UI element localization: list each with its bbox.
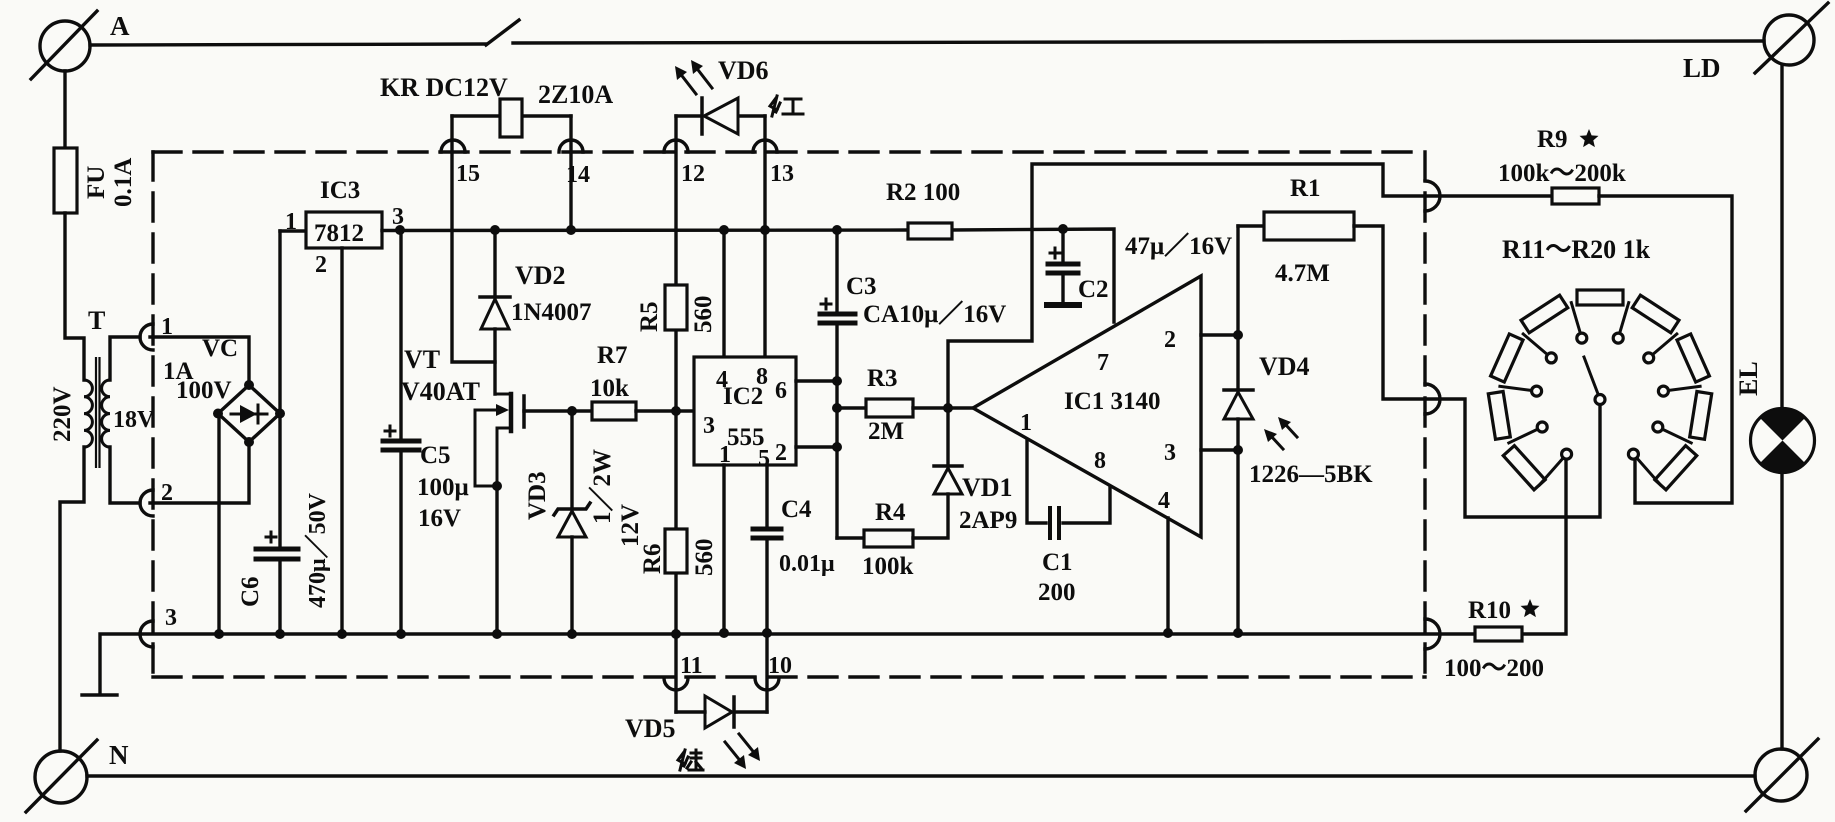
svg-text:3: 3 (703, 413, 715, 439)
node pin1 at rail (719, 628, 729, 638)
svg-text:EL: EL (1734, 361, 1763, 396)
photodiode VD4 1226-5BK (1224, 390, 1253, 419)
resistor R18 (1677, 334, 1709, 382)
svg-text:C1: C1 (1042, 549, 1073, 576)
capacitor C5 100u 16V (383, 426, 419, 450)
svg-text:A: A (110, 11, 130, 41)
svg-text:IC2: IC2 (723, 383, 763, 410)
spoke contact e (1571, 303, 1582, 339)
dashed enclosure bottom (153, 675, 1425, 678)
svg-text:10k: 10k (590, 375, 629, 402)
resistor R14 (1491, 334, 1523, 382)
wire contact 3 to ground symbol (100, 634, 140, 692)
node bridge bottom (244, 437, 254, 447)
wire lamp to bottom terminal (1780, 473, 1783, 749)
node pin3/C5 (395, 225, 405, 235)
svg-text:1／2W: 1／2W (588, 449, 616, 524)
svg-text:VD5: VD5 (625, 714, 676, 743)
svg-text:220V: 220V (49, 386, 76, 442)
resistor R9 100k~200k (1552, 188, 1599, 204)
wire contact 2 to bridge bottom (150, 444, 249, 503)
LED VD6 red loop (676, 114, 765, 117)
transformer T primary winding 220V (84, 380, 92, 447)
wire VD6 right to IC2 pin8 (763, 116, 766, 357)
svg-text:3: 3 (1164, 440, 1176, 466)
wire +12V rail from IC3 pin3 to R2 (382, 228, 908, 232)
svg-text:14: 14 (566, 162, 590, 188)
transformer core (96, 357, 100, 468)
wire VD4 branch (1236, 226, 1239, 632)
svg-text:R9: R9 (1537, 126, 1568, 153)
svg-text:100k: 100k (862, 553, 914, 580)
resistor R2 100 (908, 223, 952, 239)
node bridge right (275, 409, 285, 419)
node bridge left (213, 409, 223, 419)
svg-text:IC1 3140: IC1 3140 (1064, 388, 1161, 415)
LED VD5 symbol (705, 696, 734, 728)
svg-text:R6: R6 (639, 543, 666, 574)
svg-text:VD3: VD3 (524, 471, 551, 520)
contact 15 bump (441, 140, 465, 152)
svg-text:R2 100: R2 100 (886, 179, 960, 206)
wire IC2 pin4 to rail (722, 230, 725, 357)
svg-text:2: 2 (775, 440, 787, 466)
node VD4 at rail (1233, 628, 1243, 638)
contact circle 1 (1562, 449, 1572, 459)
wire primary bottom to N (60, 447, 84, 751)
spoke contact d (1523, 334, 1551, 358)
VD5 emission arrows (725, 734, 760, 769)
svg-text:470μ／50V: 470μ／50V (304, 492, 331, 608)
terminal A (31, 11, 97, 79)
wire feedback from input node to R9 (948, 164, 1552, 408)
svg-text:3: 3 (165, 605, 177, 631)
wire bridge left to ground rail (217, 414, 220, 634)
bridge inner diode (231, 405, 267, 423)
svg-text:2: 2 (315, 252, 327, 278)
diode VD1 2AP9 (934, 466, 962, 494)
svg-text:C6: C6 (237, 576, 264, 607)
LED VD6 symbol (702, 98, 738, 134)
diode VD2 1N4007 (480, 297, 510, 329)
resistor R15 (1521, 295, 1568, 333)
wire R4 left (837, 536, 864, 539)
svg-text:100～200: 100～200 (1444, 655, 1544, 682)
resistor R5 560 (665, 285, 687, 330)
rotor wiper (1584, 357, 1598, 394)
node bridge-left at rail (214, 629, 224, 639)
svg-text:7812: 7812 (314, 220, 364, 247)
svg-text:R1: R1 (1290, 175, 1321, 202)
wire IC3 pin2 to ground rail (340, 248, 343, 634)
wire IC2 pin6 (796, 379, 837, 382)
zener VD3 12V branch (570, 411, 573, 634)
contact 13 bump (753, 140, 777, 152)
resistor R20 (1655, 446, 1697, 490)
contact circle 10 (1628, 449, 1638, 459)
svg-text:2Z10A: 2Z10A (538, 80, 613, 109)
svg-text:CA10μ／16V: CA10μ／16V (863, 300, 1006, 328)
svg-text:R7: R7 (597, 342, 628, 369)
contact circle 4 (1546, 353, 1556, 363)
svg-text:VD4: VD4 (1259, 352, 1310, 381)
node R5 R6 pin3 (671, 406, 681, 416)
svg-text:200: 200 (1038, 579, 1076, 606)
svg-text:2M: 2M (868, 418, 904, 445)
wire C5 branch (399, 230, 402, 634)
svg-text:R4: R4 (875, 499, 906, 526)
svg-text:560: 560 (690, 296, 717, 334)
svg-text:15: 15 (456, 161, 480, 187)
wire R1 right to rotor (1354, 226, 1600, 517)
wire LD to lamp (1780, 65, 1783, 408)
spoke contact g (1649, 334, 1677, 358)
contact 3 bump (140, 621, 153, 647)
contact circle 5 (1577, 333, 1587, 343)
svg-text:C3: C3 (846, 273, 877, 300)
hop R10 ground (1425, 619, 1440, 649)
resistor R6 560 (665, 529, 687, 573)
svg-text:100V: 100V (176, 377, 232, 404)
rotor contact (1595, 395, 1605, 405)
spoke end right (1633, 454, 1660, 485)
wire bottom rail N to lamp terminal (87, 774, 1755, 777)
wire IC1 pin4 to ground rail (1166, 518, 1169, 632)
capacitor C1 200 from pin1 to pin8 (1027, 441, 1110, 538)
svg-text:1226—5BK: 1226—5BK (1249, 461, 1373, 488)
lamp EL (1751, 409, 1815, 473)
svg-text:V40AT: V40AT (401, 377, 480, 406)
dashed enclosure right (1423, 152, 1426, 677)
spoke contact h (1663, 386, 1700, 391)
label green (678, 750, 703, 770)
contact 2 bump (140, 490, 153, 516)
op-amp IC1 3140 triangle (973, 276, 1201, 537)
relay KR coil 2Z10A (500, 99, 522, 137)
resistor R3 2M (866, 399, 913, 417)
node VT source (492, 481, 502, 491)
spoke contact i (1658, 427, 1691, 443)
wire A to fuse (63, 71, 66, 148)
svg-text:VD6: VD6 (718, 56, 769, 85)
contact 11 bump (664, 678, 688, 690)
ground rail (140, 632, 1475, 635)
svg-text:R5: R5 (636, 301, 663, 332)
wire fuse to transformer primary (65, 213, 84, 380)
svg-text:N: N (109, 740, 129, 770)
svg-text:47μ／16V: 47μ／16V (1125, 232, 1232, 260)
svg-text:12V: 12V (617, 504, 644, 547)
svg-text:4: 4 (1158, 488, 1170, 514)
wire relay right to +12 rail (569, 116, 572, 230)
node relay right at rail (566, 225, 576, 235)
LED VD5 green loop (676, 710, 767, 713)
resistor R1 4.7M (1264, 212, 1354, 240)
wire IC1 pin2 (1201, 333, 1238, 336)
VD6 emission arrows (675, 60, 712, 94)
wire R10 to left switch end (1522, 459, 1566, 634)
svg-text:13: 13 (770, 161, 794, 187)
svg-text:FU: FU (83, 166, 110, 199)
wire VT source to ground rail (495, 486, 498, 634)
wire IC2 pin2 (796, 445, 837, 448)
spoke contact c (1500, 386, 1537, 391)
svg-text:R10: R10 (1468, 597, 1511, 624)
contact circle 2 (1537, 422, 1547, 432)
resistor R12 (1503, 446, 1545, 490)
resistor R4 100k (864, 530, 913, 547)
wire secondary top to contact 1 (110, 337, 140, 380)
wire relay left to VT drain (452, 116, 495, 362)
node C6 at rail (275, 629, 285, 639)
wire R3 left (837, 406, 866, 409)
relay KR coil wire (452, 114, 571, 117)
svg-text:1: 1 (1020, 410, 1032, 436)
svg-text:18V: 18V (113, 407, 155, 433)
dashed enclosure left (151, 152, 154, 677)
svg-text:C2: C2 (1078, 276, 1109, 303)
wire VD1 to input node (946, 408, 949, 466)
capacitor C3 CA10u/16V (820, 299, 855, 323)
terminal N (26, 740, 97, 812)
ground (82, 693, 117, 696)
wire IC1 pin3 (1201, 448, 1238, 451)
contact 1 bump (140, 324, 153, 350)
VD4 light arrows (1264, 417, 1297, 449)
node pin2/R4 (832, 442, 842, 452)
wire R4 to VD1 (913, 494, 948, 538)
wire IC2 pin5 to C4 (765, 465, 768, 712)
contact circle 7 (1644, 353, 1654, 363)
wire top from switch to LD (513, 41, 1764, 43)
node VD3 at rail (567, 629, 577, 639)
svg-text:KR DC12V: KR DC12V (380, 73, 508, 102)
wire R7 to IC2 pin3 (636, 409, 694, 412)
wire R5 R6 chain (674, 116, 677, 712)
node C4 at rail (762, 628, 772, 638)
wire bridge right / IC3 pin1 / C6 line (278, 231, 281, 634)
contact circle 9 (1653, 422, 1663, 432)
node pin8 at rail (760, 225, 770, 235)
node bridge top (244, 380, 254, 390)
wire contact 1 to bridge top (150, 337, 249, 383)
node R6 at rail (671, 629, 681, 639)
wire C3 branch (835, 230, 838, 538)
spoke end left (1540, 454, 1567, 485)
resistor R17 (1632, 295, 1679, 333)
wire IC2 pin1 to rail (722, 465, 725, 632)
svg-text:VC: VC (202, 335, 238, 362)
hop R1 wire (1425, 384, 1440, 414)
wire VT gate to R7 (524, 409, 592, 412)
node C2 (1058, 224, 1068, 234)
svg-text:8: 8 (1094, 448, 1106, 474)
wire R9 right to switch end (1599, 196, 1732, 503)
svg-text:0.1A: 0.1A (110, 158, 137, 207)
contact circle 6 (1613, 333, 1623, 343)
wire VD2 branch from rail (493, 230, 496, 394)
dashed enclosure top (153, 150, 1423, 153)
node pin6/C3 (832, 376, 842, 386)
svg-text:VD2: VD2 (515, 261, 566, 290)
node VT source at rail (492, 629, 502, 639)
svg-text:0.01μ: 0.01μ (779, 551, 835, 577)
IC2 555 box (694, 357, 796, 465)
transistor VT V40AT (475, 394, 524, 486)
hop R9 feedback (1425, 181, 1440, 211)
node IC3 pin2 at rail (337, 629, 347, 639)
node pin2/R1/VD4 (1233, 330, 1243, 340)
node C3 at rail (832, 225, 842, 235)
svg-text:LD: LD (1683, 53, 1721, 83)
label red (770, 96, 803, 116)
svg-text:560: 560 (691, 539, 718, 577)
star R9 (1580, 129, 1599, 147)
bridge rectifier VC diamond (218, 385, 280, 442)
node gate/VD3 (567, 406, 577, 416)
svg-text:12: 12 (681, 161, 705, 187)
contact 10 bump (755, 678, 779, 690)
resistor R16 top (1577, 290, 1623, 305)
node pin4 at rail (719, 225, 729, 235)
svg-text:16V: 16V (418, 505, 461, 532)
svg-text:4.7M: 4.7M (1275, 260, 1330, 287)
node pin3/VD4 (1233, 445, 1243, 455)
node IC1 pin1 input (943, 403, 953, 413)
terminal bottom right (1746, 739, 1818, 811)
capacitor C6 470u/50V (256, 532, 298, 559)
svg-text:100μ: 100μ (417, 474, 469, 501)
svg-text:R11～R20 1k: R11～R20 1k (1502, 235, 1651, 264)
node R3 left (832, 403, 842, 413)
svg-text:100k～200k: 100k～200k (1498, 160, 1626, 187)
contact circle 8 (1658, 386, 1668, 396)
wire top from A to switch (90, 44, 486, 45)
svg-text:1: 1 (285, 209, 297, 235)
svg-text:7: 7 (1097, 350, 1109, 376)
svg-text:10: 10 (768, 653, 792, 679)
svg-text:VD1: VD1 (962, 473, 1013, 502)
svg-text:1N4007: 1N4007 (511, 299, 592, 326)
contact 12 bump (664, 140, 688, 152)
spoke contact f (1618, 303, 1629, 339)
svg-text:IC3: IC3 (320, 177, 360, 204)
zener VD3 symbol (554, 503, 590, 537)
contact circle 3 (1532, 386, 1542, 396)
transformer secondary winding 18V (102, 380, 110, 447)
svg-text:2: 2 (1164, 327, 1176, 353)
node VD2 at rail (490, 225, 500, 235)
node C5 at rail (396, 629, 406, 639)
capacitor C2 47u/16V (1047, 229, 1079, 305)
fuse FU 0.1A (54, 148, 77, 213)
switch S (486, 20, 519, 45)
star R10 (1521, 599, 1540, 617)
wire R1 left (1238, 224, 1264, 227)
capacitor C4 0.01u (753, 529, 781, 538)
spoke contact b (1509, 427, 1542, 443)
svg-text:6: 6 (775, 378, 787, 404)
resistor R7 10k (592, 402, 636, 420)
contact 14 bump (559, 140, 583, 152)
svg-text:T: T (88, 306, 105, 335)
wire secondary bottom to contact 2 (110, 447, 140, 503)
wire +12 rail R2 to pin7 (952, 229, 1114, 322)
IC3 7812 regulator (306, 212, 382, 248)
svg-text:VT: VT (404, 345, 440, 374)
wire R3 to IC1 input (913, 406, 973, 409)
svg-text:C4: C4 (781, 496, 812, 523)
resistor R10 100~200 (1475, 627, 1522, 641)
svg-text:11: 11 (680, 653, 703, 679)
terminal LD (1755, 3, 1828, 73)
resistor R19 (1690, 392, 1712, 440)
svg-text:C5: C5 (420, 442, 451, 469)
svg-text:R3: R3 (867, 365, 898, 392)
svg-text:2AP9: 2AP9 (959, 507, 1017, 534)
node pin4 at rail (1163, 628, 1173, 638)
resistor R13 (1488, 392, 1510, 440)
wire IC3 pin1 (280, 229, 306, 232)
